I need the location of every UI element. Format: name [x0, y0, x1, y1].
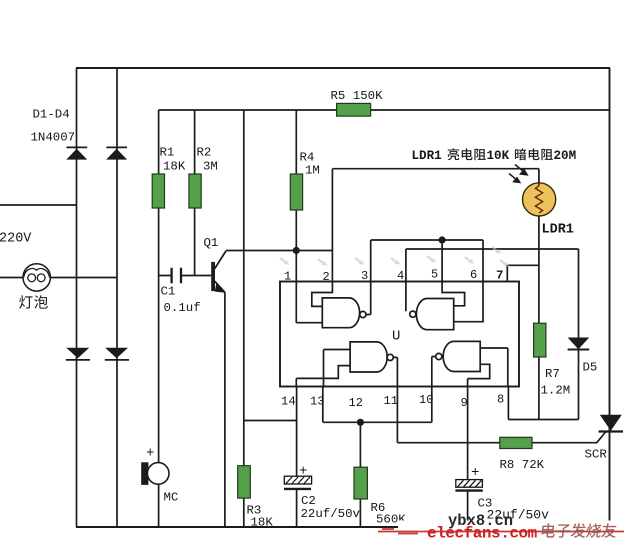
resistor R1	[152, 174, 164, 208]
svg-text:SCR: SCR	[585, 448, 608, 462]
svg-text:LDR1: LDR1	[412, 149, 443, 163]
svg-text:elecfans.com: elecfans.com	[427, 525, 538, 543]
svg-text:MC: MC	[164, 491, 179, 505]
diode D2	[106, 147, 127, 159]
svg-text:R2: R2	[197, 146, 212, 160]
wire: bridge right branch (D2/D4 column)	[116, 68, 118, 527]
wire: Q1 emitter to bottom bus	[224, 293, 226, 528]
wire: R1 branch / MC column	[158, 110, 160, 527]
wire: pins 13-12-11-10 rail	[323, 387, 432, 423]
diode D5	[568, 338, 590, 350]
svg-text:0.1uf: 0.1uf	[164, 301, 201, 315]
svg-text:1N4007: 1N4007	[31, 131, 76, 145]
diode D1	[66, 147, 87, 159]
diode D4	[105, 348, 129, 360]
pin number labels top row	[284, 268, 503, 285]
light arrows into LDR	[509, 165, 528, 183]
NAND gate B (top-right, mirrored)	[410, 299, 454, 330]
svg-text:R4: R4	[300, 151, 315, 165]
svg-text:1: 1	[284, 270, 291, 284]
wire: R2 branch	[194, 110, 196, 276]
NAND gate A (top-left)	[322, 298, 366, 328]
svg-text:12: 12	[349, 396, 363, 410]
svg-text:5: 5	[431, 268, 438, 282]
svg-text:8: 8	[497, 393, 504, 407]
wire: Q1 collector to IC pins 1-2	[226, 250, 332, 252]
svg-text:1.2M: 1.2M	[541, 384, 571, 398]
resistor R5	[337, 103, 371, 116]
svg-text:Q1: Q1	[204, 236, 219, 250]
wire: tie R3 column to pin14 column	[244, 420, 297, 422]
svg-text:2: 2	[323, 270, 330, 284]
resistor R8	[500, 437, 532, 448]
wire: pin 14 column to C2	[296, 387, 298, 528]
wire: R4 branch / IC pin1 column	[296, 110, 322, 323]
svg-text:R5 150K: R5 150K	[331, 89, 384, 103]
svg-text:R7: R7	[545, 367, 560, 381]
wire: LDR branch column	[538, 216, 540, 420]
svg-text:LDR1: LDR1	[542, 223, 574, 238]
IC U package box	[280, 282, 519, 387]
wire: gate D lower input from pin 9	[468, 364, 490, 386]
wire: pin8 / R7 / D5 bottom tie	[508, 387, 578, 420]
wire: pin 6 descent to gate B input	[454, 240, 483, 322]
wire: LDR feed riser from collector node and staircase to gate A input	[312, 169, 333, 307]
svg-text:20M: 20M	[554, 149, 577, 163]
svg-text:220V: 220V	[0, 232, 32, 247]
svg-text:18K: 18K	[251, 516, 274, 530]
svg-text:D5: D5	[583, 361, 598, 375]
frame: top bus wire	[76, 67, 610, 69]
svg-text:9: 9	[461, 396, 468, 410]
svg-text:3: 3	[361, 269, 368, 283]
svg-text:+: +	[471, 465, 479, 481]
svg-text:1: 1	[281, 395, 288, 409]
resistor R3	[238, 466, 251, 498]
label 灯泡	[19, 295, 32, 308]
NAND gate D (bottom-right, mirrored)	[436, 341, 481, 371]
watermark 电子发烧友	[541, 523, 617, 538]
svg-text:R8 72K: R8 72K	[500, 458, 545, 472]
resistor R2	[189, 174, 201, 208]
svg-text:10K: 10K	[487, 149, 510, 163]
wire: pin 7 stub to LDR column	[507, 265, 539, 281]
svg-text:18K: 18K	[163, 160, 186, 174]
watermark white backing box	[398, 521, 629, 549]
svg-text:7: 7	[496, 269, 503, 283]
svg-text:4: 4	[397, 269, 404, 283]
wire: pin 11 descent and R8 line to SCR gate	[397, 387, 596, 443]
transistor Q1	[211, 251, 226, 293]
scan ghost artifacts above pin row	[280, 247, 510, 267]
junction node: R4 bottom / Q1 collector	[293, 247, 300, 254]
wire: middle bus branch (R3 column)	[243, 110, 245, 527]
svg-text:6: 6	[470, 268, 477, 282]
wire: 220V mains line to lamp	[0, 277, 118, 279]
svg-text:D1-D4: D1-D4	[33, 108, 70, 122]
pin number labels bottom row	[281, 393, 504, 411]
wire: pin 4 rail to D5 column and descent to gate B bubble	[406, 249, 579, 311]
watermark strike line	[378, 529, 624, 534]
wire: gate A output to pin 3 riser and pins 3-5-6 rail	[366, 240, 483, 315]
svg-text:1M: 1M	[305, 164, 320, 178]
wire: gate C output to pin 11	[393, 357, 397, 386]
resistor R6	[354, 467, 367, 499]
wire: pin 9 column to C3	[467, 387, 469, 528]
wire: main top rail	[159, 109, 610, 111]
wire: horizontal feed to LDR	[332, 169, 539, 184]
svg-text:3M: 3M	[203, 160, 218, 174]
wire: bridge left branch (D1/D3 column)	[76, 68, 78, 527]
microphone MC	[141, 446, 169, 485]
svg-text:4: 4	[289, 395, 296, 409]
lamp 灯泡	[23, 264, 50, 291]
capacitor C3 (electrolytic)	[455, 465, 482, 491]
wire: gate D upper input from pin 8 riser	[480, 348, 508, 387]
svg-text:+: +	[146, 446, 154, 462]
capacitor C1	[159, 268, 212, 284]
wire: gate D output to pin 10	[432, 357, 436, 387]
svg-text:22uf/50v: 22uf/50v	[301, 507, 361, 521]
frame: right bus wire (SCR column)	[609, 68, 611, 527]
wire: gate C lower input from pin 14 column	[296, 366, 350, 387]
diode D3	[66, 348, 90, 360]
svg-text:11: 11	[384, 394, 398, 408]
wire: D5 column	[578, 249, 580, 420]
NAND gate C (bottom-left)	[350, 342, 393, 372]
resistor R4	[290, 174, 302, 210]
svg-text:U: U	[392, 329, 400, 345]
resistor R7	[534, 323, 546, 357]
svg-text:C1: C1	[161, 285, 176, 299]
frame: bottom bus wire	[76, 526, 610, 528]
junction node: R6 tap	[357, 419, 364, 426]
wire: gate C upper input from pin 13	[324, 350, 351, 387]
junction node: pin 5 tie	[439, 236, 446, 243]
capacitor C2 (electrolytic)	[284, 464, 312, 489]
wire: 220V mains line top	[0, 204, 77, 206]
wire: R6 column	[359, 422, 361, 527]
photoresistor LDR1	[523, 183, 556, 216]
thyristor SCR	[596, 415, 623, 444]
svg-text:C2: C2	[301, 494, 316, 508]
svg-text:R1: R1	[160, 146, 175, 160]
wire: pin 5 descent and staircase to gate B input	[442, 240, 465, 306]
